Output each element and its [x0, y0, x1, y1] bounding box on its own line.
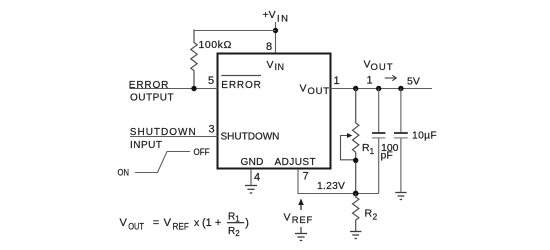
svg-text:OFF: OFF [194, 147, 210, 157]
resistor 100kOhm [191, 30, 197, 89]
svg-text:ON: ON [118, 168, 130, 178]
svg-text:ERROR: ERROR [129, 80, 169, 91]
pin name ERROR with overline [221, 76, 261, 92]
label node 1 on rail [367, 75, 373, 87]
node +VIN / 100k junction [273, 28, 278, 33]
node 100pF top on rail [376, 86, 381, 91]
capacitor 10uF [394, 89, 408, 193]
svg-text:SHUTDOWN: SHUTDOWN [221, 132, 280, 143]
label +VIN [263, 9, 289, 24]
potentiometer R1 [353, 89, 359, 194]
VREF source arrow [298, 199, 304, 211]
svg-text:V: V [284, 212, 291, 224]
label R1 [362, 142, 375, 156]
node ADJ junction R1/R2/100pF [353, 191, 359, 197]
formula VOUT = VREF x (1 + R1/R2) [120, 211, 249, 238]
ground below R2 [350, 232, 361, 239]
label R2 [365, 208, 378, 222]
label 100kOhm [199, 39, 232, 51]
label OFF [194, 147, 210, 157]
pin name SHUTDOWN [221, 132, 280, 143]
wire top rail from 100k resistor to +VIN node [194, 30, 276, 32]
svg-text:1: 1 [370, 146, 375, 156]
svg-text:7: 7 [303, 171, 309, 183]
svg-text:V: V [267, 59, 274, 71]
svg-text:OUT: OUT [128, 221, 144, 231]
ground below 10uF [395, 193, 406, 200]
svg-text:R: R [228, 226, 235, 237]
capacitor 100pF [372, 89, 385, 194]
ground below VREF [295, 227, 307, 241]
svg-text:100kΩ: 100kΩ [199, 39, 232, 51]
resistor R2 [353, 194, 359, 232]
ground at GND pin 4 [245, 186, 257, 194]
svg-text:V: V [120, 217, 128, 229]
svg-text:GND: GND [241, 157, 264, 168]
wire output rail from pin 1 [331, 88, 433, 90]
svg-text:1: 1 [334, 75, 340, 87]
svg-text:IN: IN [275, 62, 285, 72]
label VOUT net [364, 59, 393, 74]
pin name ADJUST [275, 157, 317, 168]
pin 7 label [303, 171, 309, 183]
node R1 top on rail [353, 86, 358, 91]
svg-text:R: R [228, 211, 235, 222]
svg-text:): ) [245, 217, 249, 229]
pin 3 label [209, 124, 215, 136]
label 10uF [412, 130, 437, 141]
svg-text:OUT: OUT [308, 86, 330, 97]
svg-text:10µF: 10µF [412, 130, 437, 141]
svg-text:1: 1 [367, 75, 373, 87]
pin name GND [241, 157, 264, 168]
pin 1 label [334, 75, 340, 87]
node 10uF top on rail [398, 86, 403, 91]
svg-text:5V: 5V [407, 76, 420, 88]
svg-text:REF: REF [173, 221, 190, 231]
svg-text:1.23V: 1.23V [317, 181, 345, 192]
label 5V [407, 76, 420, 88]
svg-text:4: 4 [254, 172, 260, 184]
svg-text:SHUTDOWN: SHUTDOWN [130, 127, 197, 138]
wire pin 4 to ground [250, 169, 252, 186]
node R1 wiper junction [353, 158, 358, 163]
arrow to 5V output [385, 75, 397, 80]
label ON [118, 168, 130, 178]
svg-text:OUTPUT: OUTPUT [130, 92, 174, 103]
svg-text:+V: +V [263, 9, 276, 21]
svg-text:x: x [194, 217, 200, 229]
svg-text:8: 8 [266, 41, 272, 53]
label VREF [284, 212, 313, 227]
pin 4 label [254, 172, 260, 184]
svg-text:(1 +: (1 + [202, 217, 221, 229]
svg-text:ADJUST: ADJUST [275, 157, 317, 168]
svg-text:2: 2 [235, 229, 240, 238]
svg-text:V: V [164, 217, 172, 229]
svg-text:IN: IN [277, 13, 288, 24]
svg-text:V: V [300, 83, 307, 95]
svg-text:V: V [364, 59, 371, 71]
wire pin 7 ADJUST down and right [298, 169, 379, 194]
pin 5 label [208, 75, 214, 87]
svg-text:=: = [153, 217, 159, 229]
label SHUTDOWN INPUT [130, 127, 197, 151]
wire +VIN down to pin 8 [275, 22, 277, 53]
regulator IC U1 box [218, 54, 331, 169]
label 100 pF [381, 142, 399, 162]
svg-text:5: 5 [208, 75, 214, 87]
svg-text:3: 3 [209, 124, 215, 136]
pin name VIN [267, 59, 285, 72]
svg-text:R: R [365, 208, 373, 220]
svg-text:pF: pF [381, 150, 393, 162]
svg-text:INPUT: INPUT [130, 140, 163, 151]
svg-text:REF: REF [292, 215, 313, 226]
svg-text:OUT: OUT [371, 62, 393, 73]
label ERROR OUTPUT [129, 80, 174, 103]
wire ERROR OUTPUT to pin 5 [130, 88, 218, 90]
wire SHUTDOWN INPUT to pin 3 [130, 136, 218, 138]
switch waveform ON to OFF [135, 152, 190, 173]
svg-text:2: 2 [373, 212, 378, 222]
pin name VOUT [300, 83, 330, 98]
label 1.23V [317, 181, 345, 192]
pin 8 label [266, 41, 272, 53]
node error/100k junction [191, 86, 196, 91]
R1 wiper arrow [341, 133, 356, 160]
svg-text:ERROR: ERROR [221, 80, 261, 91]
